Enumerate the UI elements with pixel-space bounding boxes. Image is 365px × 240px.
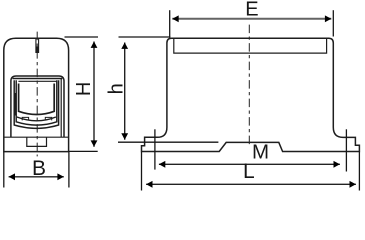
left foot inner edge / M extension [154, 129, 156, 169]
right view body outline with feet [142, 38, 360, 151]
svg-text:H: H [73, 82, 95, 96]
dimension E extension lines [169, 10, 171, 38]
screw slot [36, 38, 39, 52]
dimension E line [172, 18, 331, 20]
svg-text:h: h [106, 83, 128, 94]
right foot inner edge / M extension [345, 129, 347, 171]
dimension L extension lines [141, 152, 143, 191]
lid inner edges [174, 38, 327, 53]
svg-text:B: B [32, 157, 46, 180]
left view centerline [36, 32, 38, 157]
window lip right vertical [60, 79, 62, 138]
cavity top line [18, 80, 57, 82]
svg-text:L: L [243, 160, 255, 183]
cage outer wall inner line [16, 80, 57, 125]
left view base tab [27, 137, 47, 146]
dimension B extension lines [3, 152, 5, 188]
dimension H extension lines [65, 36, 99, 38]
left view base top line [4, 136, 69, 138]
DIN channel floor line / h reference [118, 141, 218, 143]
window lip top line [13, 78, 63, 80]
left view body outline [4, 38, 69, 151]
cage outer wall left fill [14, 93, 16, 116]
clamp bottom arc [17, 117, 56, 121]
cage outer wall outer line [14, 80, 58, 128]
svg-text:E: E [245, 0, 258, 20]
dimension h line [124, 43, 126, 140]
dimension M line [159, 163, 340, 165]
dimension B line [9, 176, 64, 178]
cage bottom tabs [22, 117, 28, 120]
dimension L line [146, 183, 356, 185]
right view centerline [248, 25, 250, 146]
cage inner wall [19, 84, 55, 115]
window outer frame [11, 76, 64, 137]
dimension h extension lines [119, 36, 171, 38]
dimension H line [93, 42, 95, 147]
